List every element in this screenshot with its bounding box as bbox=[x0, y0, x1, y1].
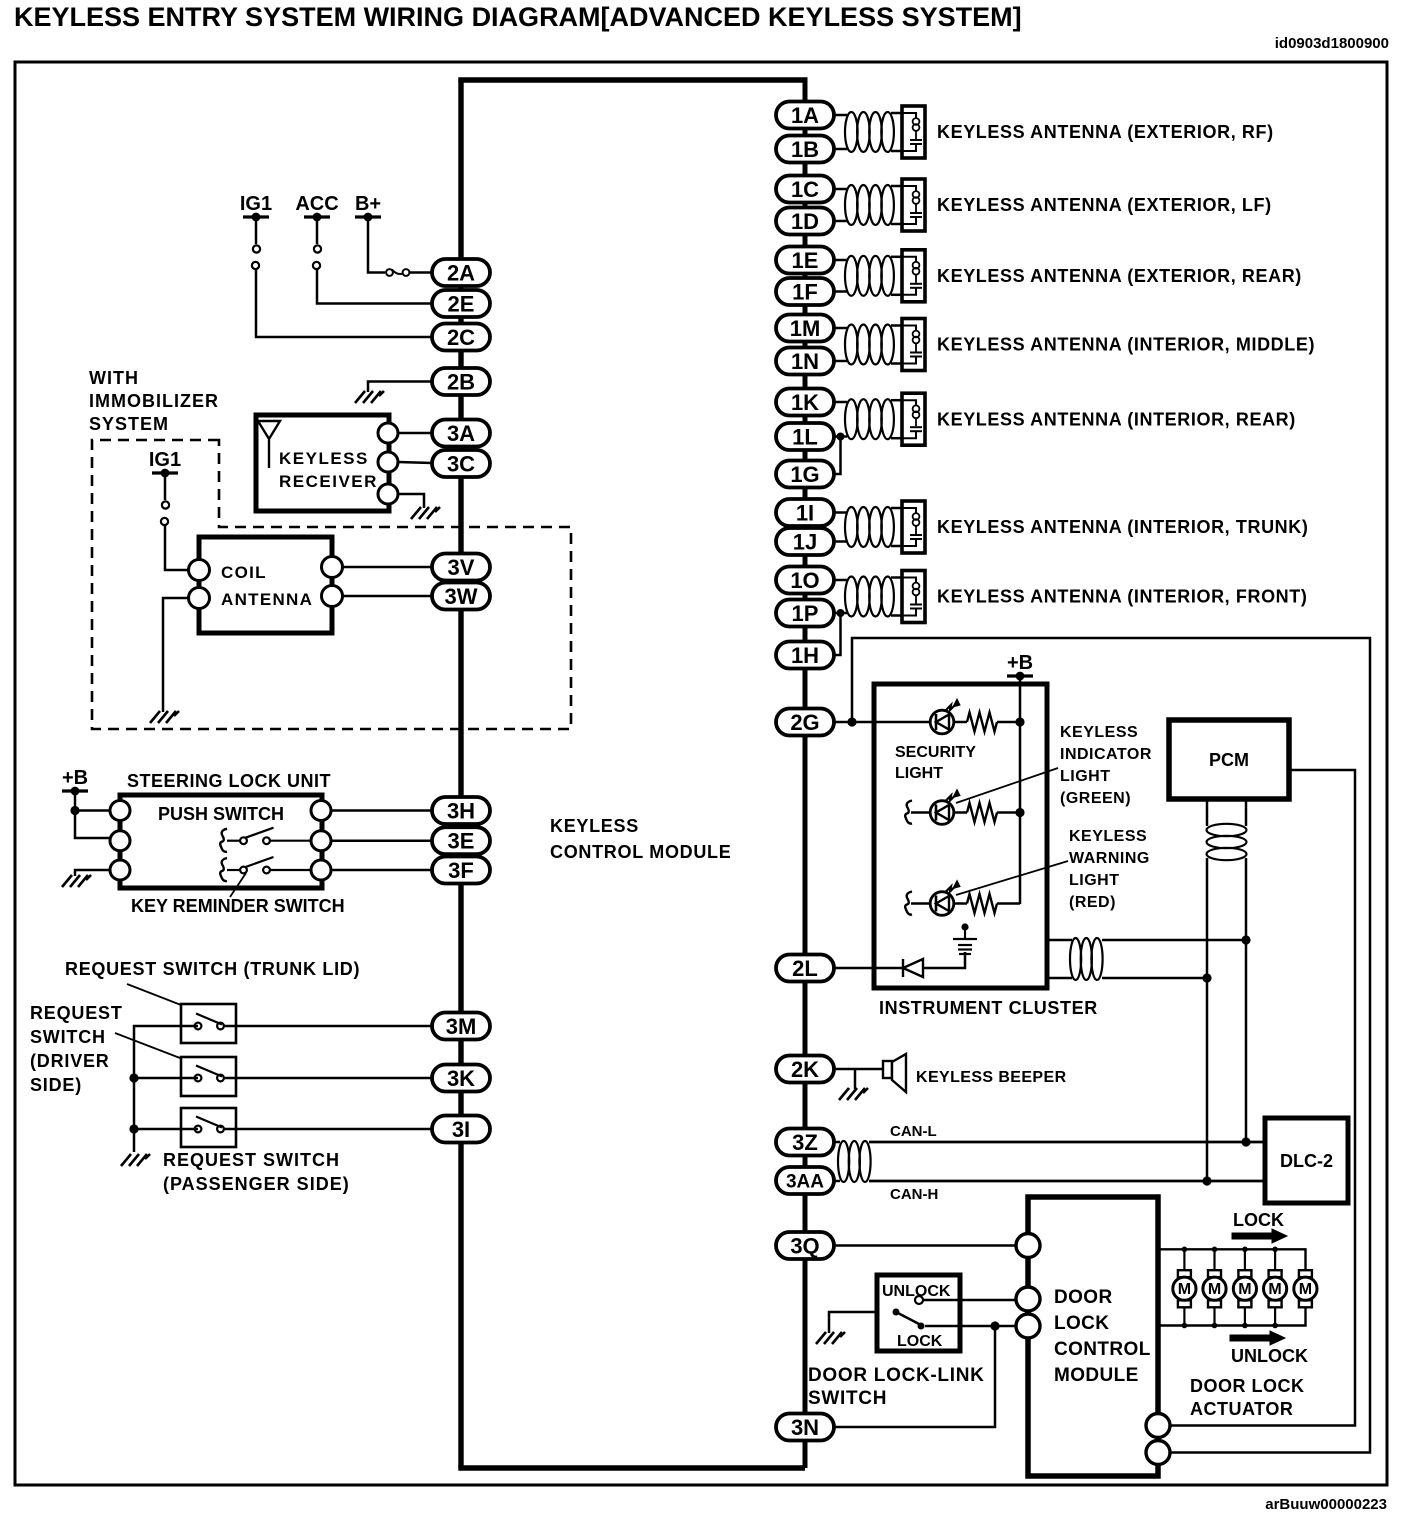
pin 3V bbox=[432, 554, 490, 581]
junction lock line bbox=[990, 1321, 999, 1330]
svg-text:LIGHT: LIGHT bbox=[1069, 872, 1120, 889]
power symbol +B steering bbox=[62, 787, 88, 796]
svg-text:KEYLESS: KEYLESS bbox=[550, 816, 639, 836]
wire IG1 to pin 2C bbox=[256, 269, 432, 337]
svg-text:3M: 3M bbox=[446, 1014, 477, 1039]
svg-text:SWITCH: SWITCH bbox=[808, 1388, 887, 1409]
svg-text:INDICATOR: INDICATOR bbox=[1060, 746, 1152, 763]
request switch trunk contacts bbox=[195, 1014, 224, 1030]
svg-text:REQUEST: REQUEST bbox=[30, 1003, 123, 1023]
wire actuator bottom bus bbox=[1158, 1308, 1306, 1326]
svg-text:3C: 3C bbox=[447, 451, 475, 476]
pin 1G bbox=[776, 461, 834, 488]
wire resistor 3 to bus bbox=[997, 902, 1020, 905]
ground for door lock-link switch bbox=[816, 1332, 845, 1344]
wire switch pole to ground bbox=[829, 1312, 877, 1333]
wire motor 1 taps bbox=[1183, 1249, 1185, 1270]
svg-text:1G: 1G bbox=[790, 462, 819, 487]
wire pin 1A to coil bbox=[834, 114, 847, 117]
svg-text:KEYLESS ANTENNA (EXTERIOR, RF): KEYLESS ANTENNA (EXTERIOR, RF) bbox=[937, 122, 1274, 142]
pin 3K bbox=[432, 1065, 490, 1092]
wire coil to antenna unit bottom 1P bbox=[891, 614, 902, 617]
svg-text:3F: 3F bbox=[448, 858, 474, 883]
junction CAN-H PCM bbox=[1202, 1176, 1211, 1185]
pin 3Z bbox=[776, 1129, 834, 1156]
wire motor 2 taps bbox=[1213, 1249, 1215, 1270]
door lock control module box bbox=[1028, 1197, 1158, 1476]
wire pin 1P to coil bbox=[834, 612, 847, 615]
wire coil to antenna unit top 1E bbox=[891, 256, 902, 259]
svg-text:SWITCH: SWITCH bbox=[30, 1027, 106, 1047]
junction at pin 1P bbox=[837, 609, 845, 617]
junction motor 3 bbox=[1242, 1247, 1248, 1253]
junction at pin 1L bbox=[837, 433, 845, 441]
wire cluster to PCM top bbox=[1047, 939, 1072, 942]
svg-text:1K: 1K bbox=[791, 390, 819, 415]
pin 3M bbox=[432, 1013, 490, 1040]
PCM left leg lower bbox=[1206, 858, 1209, 1181]
power symbol IG1 immobilizer bbox=[152, 469, 178, 478]
coil antenna pin circle lower-right bbox=[322, 586, 343, 607]
wire coil to antenna unit top 1I bbox=[891, 507, 902, 510]
pin 3W bbox=[432, 583, 490, 610]
dashed box WITH IMMOBILIZER SYSTEM bbox=[92, 440, 571, 729]
wire coil antenna to pin 3W bbox=[343, 595, 433, 598]
wire IG1 imm down bbox=[164, 473, 167, 500]
pin 1E bbox=[776, 247, 834, 274]
wire 1P to 1H bbox=[834, 613, 841, 655]
svg-text:1B: 1B bbox=[791, 137, 819, 162]
DLC-2 box bbox=[1265, 1118, 1348, 1203]
junction PCM right leg bbox=[1241, 935, 1250, 944]
svg-text:1O: 1O bbox=[790, 568, 819, 593]
twisted pair coil 1A/1B bbox=[845, 112, 858, 152]
svg-text:LIGHT: LIGHT bbox=[1060, 768, 1111, 785]
pin 2G bbox=[776, 709, 834, 736]
junction bus branch 1 bbox=[1015, 717, 1024, 726]
svg-text:KEYLESS: KEYLESS bbox=[279, 449, 369, 468]
wire 3AA to coil bbox=[834, 1180, 840, 1183]
wire coil to antenna unit top 1K bbox=[891, 399, 902, 402]
motor M1 bbox=[1173, 1270, 1196, 1307]
hook indicator branch bbox=[905, 801, 912, 824]
svg-text:1M: 1M bbox=[790, 316, 821, 341]
request switch driver contacts bbox=[195, 1066, 224, 1082]
svg-text:LOCK: LOCK bbox=[1233, 1210, 1284, 1230]
LED keyless warning light bbox=[930, 881, 960, 916]
wire pin 1L to coil bbox=[834, 435, 847, 438]
wire security light branch bbox=[874, 721, 930, 724]
svg-text:3Z: 3Z bbox=[792, 1130, 818, 1155]
wire coil to antenna unit top 1M bbox=[891, 324, 902, 327]
pin 3A bbox=[432, 420, 490, 447]
svg-text:WARNING: WARNING bbox=[1069, 850, 1150, 867]
svg-text:PUSH SWITCH: PUSH SWITCH bbox=[158, 804, 284, 824]
svg-text:1N: 1N bbox=[791, 349, 819, 374]
wire led to resistor 2 bbox=[954, 811, 967, 814]
svg-text:(DRIVER: (DRIVER bbox=[30, 1051, 110, 1071]
wire coil to PCM left leg bbox=[1102, 977, 1207, 980]
pin 1D bbox=[776, 208, 834, 235]
wire IG1 imm to coil antenna bbox=[165, 525, 190, 570]
switch in ACC line bbox=[313, 245, 321, 269]
keyless control module right edge wire bbox=[803, 80, 808, 1468]
wire trunk switch to ground bus bbox=[181, 1025, 198, 1028]
junction passenger switch bbox=[129, 1124, 138, 1133]
wire 3Q to door lock control module bbox=[834, 1244, 1016, 1247]
svg-text:3Q: 3Q bbox=[790, 1233, 819, 1258]
pin 1C bbox=[776, 176, 834, 203]
wire coil to antenna unit bottom 1L bbox=[891, 437, 902, 440]
pin 1J bbox=[776, 528, 834, 555]
svg-text:2E: 2E bbox=[448, 291, 475, 316]
svg-text:DOOR LOCK: DOOR LOCK bbox=[1190, 1376, 1305, 1396]
svg-text:3I: 3I bbox=[452, 1117, 470, 1142]
pin 3E bbox=[432, 827, 490, 854]
keyless control module top edge wire bbox=[458, 77, 807, 82]
junction driver switch bbox=[129, 1073, 138, 1082]
svg-text:1A: 1A bbox=[791, 103, 819, 128]
steering pin circle right3 bbox=[311, 860, 331, 880]
pin 1F bbox=[776, 278, 834, 305]
motor M3 bbox=[1233, 1270, 1256, 1307]
svg-text:(RED): (RED) bbox=[1069, 894, 1116, 911]
wire +B down bbox=[75, 791, 110, 838]
motor M2 bbox=[1203, 1270, 1226, 1307]
svg-text:IG1: IG1 bbox=[149, 449, 181, 471]
svg-text:CAN-H: CAN-H bbox=[890, 1186, 938, 1203]
svg-text:KEYLESS BEEPER: KEYLESS BEEPER bbox=[916, 1069, 1067, 1086]
svg-text:KEYLESS ENTRY SYSTEM WIRING DI: KEYLESS ENTRY SYSTEM WIRING DIAGRAM[ADVA… bbox=[14, 2, 1022, 32]
wire PCM to door lock control module bbox=[1170, 770, 1355, 1426]
pin 1H bbox=[776, 642, 834, 669]
svg-text:ACTUATOR: ACTUATOR bbox=[1190, 1399, 1293, 1419]
svg-text:LOCK: LOCK bbox=[1054, 1313, 1109, 1334]
svg-text:CONTROL MODULE: CONTROL MODULE bbox=[550, 842, 731, 862]
wire passenger switch to pin 3I bbox=[224, 1128, 432, 1131]
ground for beeper bbox=[839, 1088, 868, 1100]
wire coil antenna to pin 3V bbox=[343, 566, 433, 569]
coil antenna pin circle upper-right bbox=[322, 557, 343, 578]
power symbol ACC bbox=[304, 213, 330, 222]
request switch trunk box bbox=[181, 1004, 236, 1043]
svg-text:SYSTEM: SYSTEM bbox=[89, 414, 169, 434]
wire indicator branch bbox=[911, 811, 930, 814]
pointer to warning text bbox=[956, 861, 1068, 895]
svg-text:M: M bbox=[1268, 1281, 1281, 1298]
pin 1I bbox=[776, 499, 834, 526]
wire lock contact to DLCM bbox=[925, 1325, 1016, 1328]
svg-text:M: M bbox=[1178, 1281, 1191, 1298]
wire pin 1K to coil bbox=[834, 401, 847, 404]
svg-text:LIGHT: LIGHT bbox=[895, 765, 943, 782]
pin 1A bbox=[776, 102, 834, 129]
svg-text:INSTRUMENT CLUSTER: INSTRUMENT CLUSTER bbox=[879, 998, 1098, 1018]
coil antenna pin circle lower-left bbox=[189, 588, 210, 609]
DLCM pin circle out1 bbox=[1146, 1414, 1170, 1438]
key reminder pointer line bbox=[230, 873, 246, 897]
pin 1N bbox=[776, 348, 834, 375]
twisted pair coil 1E/1F bbox=[845, 256, 858, 296]
wire 2K to beeper bbox=[834, 1068, 883, 1071]
svg-text:2G: 2G bbox=[790, 710, 819, 735]
receiver pin circle to 3C bbox=[378, 452, 398, 472]
switch in IG1 imm line bbox=[161, 501, 169, 525]
trunk lid pointer line bbox=[127, 984, 181, 1005]
twisted pair PCM legs bbox=[1207, 824, 1247, 836]
junction CAN-L PCM bbox=[1241, 1137, 1250, 1146]
pin 3Q bbox=[776, 1232, 834, 1259]
wire coil to antenna unit top 1A bbox=[891, 112, 902, 115]
resistor indicator light bbox=[967, 803, 997, 822]
ground for coil antenna bbox=[150, 711, 179, 723]
wire 2G to instrument cluster and door lock control module bbox=[834, 721, 874, 724]
receiver pin circle to 3A bbox=[378, 423, 398, 443]
svg-text:3AA: 3AA bbox=[786, 1171, 824, 1192]
antenna unit box 1A/1B bbox=[902, 106, 925, 158]
svg-text:2L: 2L bbox=[792, 956, 818, 981]
svg-text:(GREEN): (GREEN) bbox=[1060, 790, 1131, 807]
svg-text:KEY REMINDER SWITCH: KEY REMINDER SWITCH bbox=[131, 896, 345, 916]
svg-text:B+: B+ bbox=[355, 193, 381, 215]
svg-text:3K: 3K bbox=[447, 1066, 475, 1091]
LED keyless indicator light bbox=[930, 790, 960, 825]
svg-text:REQUEST SWITCH: REQUEST SWITCH bbox=[163, 1150, 340, 1170]
wire resistor 1 to bus bbox=[997, 721, 1020, 724]
steering lock unit box bbox=[120, 795, 322, 888]
svg-text:M: M bbox=[1208, 1281, 1221, 1298]
wire led to resistor 1 bbox=[954, 721, 967, 724]
pin 1B bbox=[776, 136, 834, 163]
svg-text:3W: 3W bbox=[445, 584, 478, 609]
svg-text:CAN-L: CAN-L bbox=[890, 1123, 937, 1140]
request switch driver box bbox=[181, 1057, 236, 1096]
svg-text:KEYLESS ANTENNA (INTERIOR, TRU: KEYLESS ANTENNA (INTERIOR, TRUNK) bbox=[937, 517, 1308, 537]
wire coil to antenna unit bottom 1F bbox=[891, 294, 902, 297]
svg-text:SECURITY: SECURITY bbox=[895, 744, 976, 761]
svg-text:3V: 3V bbox=[448, 555, 475, 580]
wire coil antenna to ground bbox=[163, 598, 189, 712]
wire coil to PCM right leg bbox=[1102, 939, 1246, 942]
keyless control module left edge wire bbox=[458, 80, 463, 1468]
svg-text:+B: +B bbox=[62, 767, 88, 789]
open switch in B+ line bbox=[386, 269, 409, 276]
twisted pair coil 1O/1P bbox=[845, 577, 858, 617]
wire +B to push switch pin bbox=[75, 809, 110, 812]
DLCM pin circle lock bbox=[1016, 1314, 1040, 1338]
svg-text:2B: 2B bbox=[447, 369, 475, 394]
wire cluster to PCM bottom bbox=[1047, 977, 1072, 980]
pin 3F bbox=[432, 857, 490, 884]
driver side pointer line bbox=[115, 1033, 180, 1058]
wire steering to pin 3H bbox=[331, 809, 432, 812]
svg-text:ANTENNA: ANTENNA bbox=[221, 590, 313, 609]
keyless control module bottom edge wire bbox=[458, 1465, 805, 1470]
lock contact dot bbox=[918, 1323, 925, 1330]
svg-text:3H: 3H bbox=[447, 798, 475, 823]
junction motor 4 bbox=[1272, 1247, 1278, 1253]
wire switch to pin 2A bbox=[409, 271, 432, 274]
DLCM pin circle 3Q bbox=[1016, 1234, 1040, 1258]
wire pin 1D to coil bbox=[834, 220, 847, 223]
junction motor 2 bbox=[1212, 1247, 1218, 1253]
pin 2E bbox=[432, 290, 490, 317]
svg-text:DOOR: DOOR bbox=[1054, 1287, 1113, 1308]
antenna unit box 1M/1N bbox=[902, 319, 925, 371]
junction +B to push switch bbox=[70, 806, 79, 815]
svg-text:KEYLESS ANTENNA (EXTERIOR, LF): KEYLESS ANTENNA (EXTERIOR, LF) bbox=[937, 195, 1272, 215]
pin 1K bbox=[776, 389, 834, 416]
svg-text:3A: 3A bbox=[447, 421, 475, 446]
wire receiver to pin 3C bbox=[398, 462, 432, 463]
svg-text:2K: 2K bbox=[791, 1057, 819, 1082]
wire unlock contact to DLCM bbox=[923, 1299, 1016, 1302]
pin 3AA bbox=[776, 1167, 834, 1194]
key reminder switch contact symbol bbox=[220, 858, 227, 881]
keyless receiver box bbox=[256, 415, 389, 511]
request switch passenger contacts bbox=[195, 1117, 224, 1133]
ground for steering lock unit bbox=[62, 875, 91, 887]
PCM box bbox=[1169, 720, 1289, 799]
wire pin 1M to coil bbox=[834, 327, 847, 330]
wire +B cluster bus bbox=[1019, 676, 1022, 904]
antenna unit box 1E/1F bbox=[902, 250, 925, 302]
junction bus branch 2 bbox=[1015, 808, 1024, 817]
wire motor 4 taps bbox=[1274, 1249, 1276, 1270]
wire ACC to pin 2E bbox=[317, 269, 432, 304]
pin 2B bbox=[432, 368, 490, 395]
unlock direction arrow bbox=[1230, 1331, 1285, 1345]
wire led to resistor 3 bbox=[954, 902, 967, 905]
svg-text:1F: 1F bbox=[792, 279, 818, 304]
svg-text:COIL: COIL bbox=[221, 563, 267, 582]
svg-text:WITH: WITH bbox=[89, 368, 139, 388]
PCM right leg lower bbox=[1245, 858, 1248, 1142]
antenna unit box 1K/1L bbox=[902, 393, 925, 445]
coil antenna box bbox=[199, 537, 332, 633]
wire coil to antenna unit bottom 1N bbox=[891, 362, 902, 365]
wire resistor 2 to bus bbox=[997, 811, 1020, 814]
svg-text:2C: 2C bbox=[447, 325, 475, 350]
antenna unit box 1I/1J bbox=[902, 501, 925, 553]
twisted pair coil 1M/1N bbox=[845, 325, 858, 365]
junction PCM left leg bbox=[1202, 973, 1211, 982]
antenna unit box 1C/1D bbox=[902, 179, 925, 231]
wire trunk switch to pin 3M bbox=[224, 1025, 432, 1028]
wire ground to key reminder pin bbox=[75, 870, 110, 876]
svg-text:LOCK: LOCK bbox=[897, 1333, 943, 1350]
svg-text:SIDE): SIDE) bbox=[30, 1075, 82, 1095]
pin 3N bbox=[776, 1414, 834, 1441]
svg-text:M: M bbox=[1299, 1281, 1312, 1298]
pin 2L bbox=[776, 955, 834, 982]
motor M5 bbox=[1294, 1270, 1317, 1307]
motor M4 bbox=[1264, 1270, 1287, 1307]
svg-text:1I: 1I bbox=[796, 500, 814, 525]
svg-text:KEYLESS ANTENNA (INTERIOR, MID: KEYLESS ANTENNA (INTERIOR, MIDDLE) bbox=[937, 335, 1315, 355]
wire 3N to lock line bbox=[834, 1326, 995, 1427]
svg-text:STEERING LOCK UNIT: STEERING LOCK UNIT bbox=[127, 771, 331, 791]
svg-text:id0903d1800900: id0903d1800900 bbox=[1275, 35, 1389, 52]
svg-text:1P: 1P bbox=[792, 601, 819, 626]
twisted pair coil CAN bbox=[838, 1141, 849, 1182]
wire ACC down bbox=[316, 217, 319, 244]
wire pin 1C to coil bbox=[834, 188, 847, 191]
wire pin 1O to coil bbox=[834, 579, 847, 582]
svg-text:KEYLESS ANTENNA (EXTERIOR, REA: KEYLESS ANTENNA (EXTERIOR, REAR) bbox=[937, 266, 1302, 286]
receiver pin circle to ground bbox=[378, 484, 398, 504]
svg-text:DLC-2: DLC-2 bbox=[1280, 1151, 1333, 1171]
wire pin 1I to coil bbox=[834, 511, 847, 514]
coil antenna pin circle upper-left bbox=[189, 560, 210, 581]
svg-text:MODULE: MODULE bbox=[1054, 1365, 1139, 1386]
svg-text:M: M bbox=[1238, 1281, 1251, 1298]
hook warning branch bbox=[905, 892, 912, 915]
svg-text:RECEIVER: RECEIVER bbox=[279, 472, 378, 491]
junction 2G bbox=[847, 717, 856, 726]
wire coil to antenna unit bottom 1D bbox=[891, 223, 902, 226]
pin 3C bbox=[432, 450, 490, 477]
unlock contact circle bbox=[915, 1296, 923, 1304]
power symbol IG1 bbox=[243, 213, 269, 222]
antenna unit box 1O/1P bbox=[902, 571, 925, 623]
power symbol B+ bbox=[355, 213, 381, 222]
svg-text:3N: 3N bbox=[791, 1415, 819, 1440]
svg-text:PCM: PCM bbox=[1209, 750, 1249, 770]
wire CAN-L to DLC-2 bbox=[869, 1141, 1265, 1144]
pin 1O bbox=[776, 567, 834, 594]
wire pin 1J to coil bbox=[834, 540, 847, 543]
wire receiver to ground bbox=[398, 494, 424, 508]
svg-text:CONTROL: CONTROL bbox=[1054, 1339, 1151, 1360]
wire coil to antenna unit bottom 1J bbox=[891, 545, 902, 548]
pin 3I bbox=[432, 1116, 490, 1143]
PCM left leg upper bbox=[1206, 799, 1209, 826]
svg-text:arBuuw00000223: arBuuw00000223 bbox=[1265, 1496, 1387, 1513]
svg-text:UNLOCK: UNLOCK bbox=[1231, 1346, 1308, 1366]
wire pin 1E to coil bbox=[834, 259, 847, 262]
wire warning branch bbox=[911, 902, 930, 905]
svg-text:KEYLESS ANTENNA (INTERIOR, REA: KEYLESS ANTENNA (INTERIOR, REAR) bbox=[937, 409, 1296, 429]
ground for receiver bbox=[411, 507, 440, 519]
svg-text:+B: +B bbox=[1007, 652, 1033, 674]
svg-text:IMMOBILIZER: IMMOBILIZER bbox=[89, 391, 219, 411]
wire pin 1B to coil bbox=[834, 148, 847, 151]
steering pin circle right2 bbox=[311, 831, 331, 851]
wire 1L to 1G bbox=[834, 437, 841, 475]
power symbol +B cluster bbox=[1007, 672, 1033, 681]
wire CAN-H to DLC-2 bbox=[869, 1180, 1265, 1183]
push switch contact symbol bbox=[220, 829, 227, 852]
twisted pair coil 1C/1D bbox=[845, 185, 858, 225]
instrument cluster box bbox=[874, 684, 1047, 988]
wire steering to pin 3E bbox=[331, 839, 432, 842]
wire driver switch to pin 3K bbox=[224, 1077, 432, 1080]
antenna symbol in receiver bbox=[258, 421, 280, 468]
steering pin circle right1 bbox=[311, 801, 331, 821]
steering pin circle left2 bbox=[110, 831, 130, 851]
pin 3H bbox=[432, 797, 490, 824]
wire IG1 down bbox=[255, 217, 258, 244]
svg-text:KEYLESS: KEYLESS bbox=[1069, 828, 1147, 845]
noise capacitor symbol bbox=[953, 925, 977, 955]
diode in cluster bbox=[903, 959, 923, 977]
pin 2C bbox=[432, 324, 490, 351]
svg-text:KEYLESS: KEYLESS bbox=[1060, 724, 1138, 741]
pin 1L bbox=[776, 423, 834, 450]
wire B+ down bbox=[368, 217, 385, 273]
svg-text:1D: 1D bbox=[791, 209, 819, 234]
